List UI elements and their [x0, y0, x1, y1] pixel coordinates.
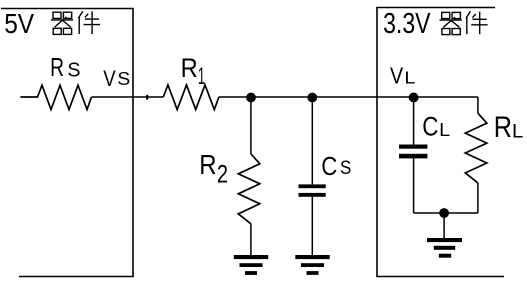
label 件 (box title CJK glyph, drawn) — [78, 11, 100, 34]
label 器 (right box title CJK glyph, drawn) — [440, 12, 462, 34]
wire node A to node B — [251, 96, 312, 98]
svg-text:2: 2 — [217, 160, 228, 188]
wire VS node — [92, 96, 164, 98]
svg-text:L: L — [512, 120, 523, 142]
box 5V device outline — [1, 9, 133, 277]
node VL junction dot — [409, 93, 419, 103]
svg-text:R: R — [181, 53, 198, 83]
resistor RS — [20, 85, 91, 109]
resistor R2 — [238, 97, 259, 255]
svg-text:R: R — [50, 52, 64, 82]
ground under R2 — [234, 255, 268, 275]
wire to ground 3 — [443, 213, 445, 238]
label 器 (box title CJK glyph, drawn) — [51, 12, 73, 34]
junction dot bottom node — [439, 208, 449, 218]
ground under load — [427, 238, 462, 258]
svg-text:R: R — [494, 112, 512, 144]
wire node B to node VL — [312, 96, 413, 98]
svg-text:S: S — [67, 58, 80, 81]
svg-text:S: S — [340, 158, 351, 179]
resistor RL — [465, 97, 487, 213]
label 件 (right box title CJK glyph, drawn) — [466, 11, 488, 34]
svg-text:L: L — [404, 67, 415, 87]
wire bottom of CL-RL — [414, 212, 478, 214]
svg-text:R: R — [199, 149, 216, 180]
capacitor CL — [399, 97, 427, 213]
svg-text:C: C — [422, 111, 438, 141]
junction tick on wire — [146, 95, 148, 100]
svg-text:1: 1 — [198, 63, 205, 90]
svg-text:V: V — [390, 62, 403, 88]
svg-text:S: S — [117, 69, 130, 89]
svg-text:3.3V: 3.3V — [383, 8, 430, 40]
node B junction dot — [307, 93, 317, 103]
svg-text:C: C — [321, 153, 337, 181]
svg-text:V: V — [103, 66, 116, 91]
wire R1 to node A — [219, 96, 251, 98]
capacitor CS — [299, 97, 326, 255]
box 3.3V device outline — [377, 8, 504, 277]
wire VL to RL branch — [414, 96, 478, 98]
svg-text:5V: 5V — [4, 7, 34, 39]
ground under CS — [295, 255, 329, 275]
svg-text:L: L — [439, 119, 450, 140]
resistor R1 — [163, 85, 219, 110]
node A junction dot — [246, 93, 256, 103]
